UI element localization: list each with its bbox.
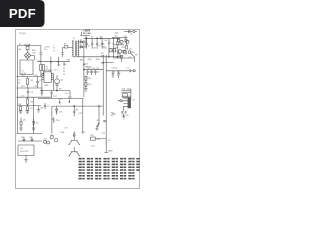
dashed sense line [63, 62, 65, 75]
transistor Q6 [120, 40, 123, 43]
junction dot [103, 62, 104, 63]
wire: vertical rail x33.6 [33, 97, 35, 133]
svg-text:10K: 10K [96, 139, 100, 141]
wire: mid-left bus y105.6 [18, 105, 42, 107]
svg-text:GND: GND [44, 85, 49, 87]
svg-text:C16 22: C16 22 [111, 67, 117, 69]
svg-text:D1: D1 [80, 39, 82, 41]
resistor RD1 [40, 65, 42, 71]
opto feedback vertical x84 [83, 40, 85, 97]
svg-text:CY1: CY1 [34, 86, 38, 88]
capacitor C23 between rails [103, 121, 106, 122]
svg-text:CX1: CX1 [21, 75, 25, 77]
svg-text:RV1: RV1 [21, 86, 25, 88]
junction dots y90.5 [41, 90, 42, 91]
ground under Q11 [95, 128, 98, 130]
wire: SMPS bottom returns [109, 45, 120, 57]
wire: output stage bottom y58 [114, 50, 135, 62]
junction dot center bus [74, 106, 75, 107]
capacitor C18 [117, 71, 119, 78]
svg-text:OUT: OUT [114, 33, 119, 35]
resistor box R8 [109, 49, 112, 52]
crystal Y1 [108, 38, 110, 47]
svg-text:R6: R6 [105, 40, 107, 42]
capacitor CF1 on riser x40.9 [39, 46, 42, 65]
junction dots on HV bus [86, 38, 87, 39]
U1 left pins [42, 73, 44, 90]
fuse F1 [26, 46, 29, 53]
LED LD4 [55, 139, 58, 142]
svg-text:DC 0.8A: DC 0.8A [83, 32, 91, 35]
resistor R10 [123, 50, 125, 52]
svg-text:C23: C23 [101, 133, 104, 135]
resistor R2 [27, 76, 29, 88]
wire: secondary rail y69.7 [84, 69, 103, 71]
wire: long rail x106.2 [105, 55, 107, 153]
svg-text:D9: D9 [115, 36, 117, 38]
capacitor C6 [61, 53, 63, 57]
wire: right drop x82.8 [82, 99, 84, 134]
CN1 pins [122, 98, 128, 106]
svg-text:C18: C18 [117, 72, 120, 74]
svg-text:C15: C15 [96, 71, 99, 73]
svg-text:U1 3842: U1 3842 [44, 70, 53, 72]
wire: center bus y106.1 [52, 105, 103, 107]
svg-text:C8: C8 [93, 48, 95, 50]
resistor R16 [129, 51, 131, 54]
capacitor C7 [85, 38, 87, 49]
resistor R15 [126, 45, 128, 49]
PDF badge [0, 0, 45, 27]
svg-text:PRI: PRI [67, 59, 71, 61]
capacitor C9 [96, 38, 98, 49]
transistor Q9 [68, 138, 80, 144]
resistor R17 [91, 137, 107, 140]
LED LD1 [43, 140, 46, 143]
svg-text:C13: C13 [88, 71, 91, 73]
svg-text:C9: C9 [98, 46, 100, 48]
U1 right pins [51, 73, 53, 90]
CN1 pin2 terminal circle [120, 100, 122, 102]
capacitor C17 [112, 71, 114, 78]
wire: rail B y88 [16, 87, 42, 89]
svg-text:C14: C14 [92, 71, 95, 73]
capacitor C5 polarized [44, 103, 46, 109]
svg-text:C19 C20: C19 C20 [121, 115, 128, 117]
svg-text:GND: GND [108, 150, 113, 152]
capacitor C14 [90, 70, 92, 75]
svg-text:C14: C14 [91, 68, 94, 70]
diode D5 with ground [19, 118, 23, 131]
wire: AC top feeder y45.5 [18, 45, 41, 47]
wire: risers to rail A [41, 71, 44, 77]
wire: mains run to SMPS [63, 48, 73, 53]
transistor Q3 [23, 137, 26, 142]
zener D9 [52, 117, 54, 123]
wire: rail C y97 [16, 96, 52, 98]
svg-text:Q11: Q11 [96, 120, 99, 122]
test point arrow TP1 [59, 100, 60, 103]
diode D1 [78, 41, 86, 43]
capacitor C12 [50, 91, 52, 98]
svg-text:C12: C12 [65, 93, 68, 95]
resistor R5 with ground [37, 106, 40, 113]
transistor Q11 [96, 123, 100, 127]
svg-text:104: 104 [32, 52, 35, 54]
capacitor C4 with ground [26, 106, 30, 114]
diode D2 [78, 42, 86, 48]
capacitor C19 [121, 111, 123, 114]
transformer T1 winding ticks [72, 42, 79, 55]
wire: rail D y133.5 [16, 133, 42, 135]
wire: bus y98.6 [38, 91, 84, 99]
diode D10 [73, 131, 75, 138]
wire: speaker line B y70.8 [106, 70, 128, 72]
wire: lower rail y141 [18, 140, 42, 142]
svg-text:EI-33: EI-33 [21, 73, 26, 75]
wire: drop x99 from center bus [98, 106, 100, 123]
wire: AC mains left rail [17, 46, 19, 134]
wire: CN1 ground drop [123, 106, 125, 111]
svg-text:J1: J1 [130, 33, 132, 35]
wire: HV top bus y38.3 [84, 37, 120, 39]
svg-text:D7: D7 [129, 57, 131, 59]
wire: left drop x51.9 [51, 106, 53, 133]
capacitor C10 [101, 38, 103, 49]
resistor R4 with ground [19, 106, 23, 114]
svg-text:CY2: CY2 [21, 95, 25, 97]
junction dot x99 [98, 106, 99, 107]
transistor Q1 [55, 79, 60, 84]
capacitor C2 [36, 76, 39, 88]
svg-text:F1 2A: F1 2A [25, 44, 31, 47]
svg-text:C7: C7 [88, 46, 90, 48]
diode D6 with ground [32, 119, 36, 130]
wire: controller ground bus y90.5 [40, 90, 70, 92]
svg-text:Q8: Q8 [135, 54, 138, 56]
ground under R12 [84, 89, 87, 91]
ground below K1 [24, 155, 28, 162]
diode D7 diagonal [131, 53, 135, 57]
capacitor C11 [41, 91, 43, 97]
capacitor C8 [91, 38, 93, 49]
wire: output stage mid links [114, 42, 127, 46]
fuse F2 [64, 46, 68, 48]
transistor Q4 [31, 137, 34, 142]
wire: bottom bus y56.8 [73, 56, 122, 58]
svg-text:D2: D2 [80, 44, 82, 46]
relay contact block [122, 89, 131, 99]
resistor R12 [85, 82, 87, 88]
relay K1 box [18, 145, 34, 155]
wire: link y62.6 [103, 38, 113, 63]
wire: secondary to controller drops [38, 57, 70, 72]
wire: CN1 pin2 feed [118, 100, 120, 102]
svg-text:470u: 470u [87, 59, 91, 61]
capacitor C13 [86, 70, 88, 75]
terminal J2 [133, 70, 135, 72]
svg-text:470u: 470u [96, 59, 100, 61]
bridge rectifier BR1 [24, 52, 30, 58]
snubber box [120, 56, 122, 62]
svg-text:R9: R9 [59, 89, 61, 91]
resistor R14 [125, 38, 127, 42]
LED LD3 [50, 136, 53, 139]
resistor R13 [117, 38, 119, 42]
svg-text:R19: R19 [101, 62, 104, 64]
wire: rail x106 end stub [105, 152, 108, 154]
capacitor C20 [125, 112, 127, 114]
resistor R11 [85, 76, 87, 82]
ground under CN1 [122, 114, 125, 120]
parts table [79, 158, 82, 160]
terminal J1 [133, 30, 135, 32]
svg-text:CX2: CX2 [34, 75, 38, 77]
wire: long rail x103.2 [102, 55, 104, 116]
svg-text:R5: R5 [100, 36, 102, 38]
wire: rail A y76 [16, 75, 42, 77]
wire: drop x95 to table [105, 139, 107, 145]
svg-text:R15: R15 [122, 47, 125, 49]
wire: +300V node riser [80, 32, 90, 42]
resistor R3 [27, 97, 29, 105]
transistor Q1 leads [56, 75, 59, 91]
resistor RD2 [42, 65, 44, 71]
capacitor C15 [94, 70, 96, 75]
diode D8 [56, 106, 58, 115]
svg-text:SEC: SEC [80, 59, 85, 61]
resistor R7 [117, 38, 119, 45]
capacitor C3 [27, 88, 29, 97]
svg-text:D3: D3 [54, 70, 56, 72]
transistor Q5 [118, 50, 121, 53]
transformer T1 box [20, 60, 33, 75]
connector CN1 header [128, 97, 131, 108]
junction dots bottom bus [108, 56, 109, 57]
svg-text:RLY12V: RLY12V [21, 151, 29, 153]
LED LD2 [47, 141, 50, 144]
transistor Q7 [126, 40, 129, 43]
capacitor C16 on line B [129, 69, 133, 72]
test point arrow TP2 [69, 99, 70, 102]
wire: bridge output right [28, 56, 35, 61]
transistor Q8 [124, 51, 127, 54]
svg-text:C17: C17 [112, 72, 115, 74]
svg-text:4K7: 4K7 [111, 115, 114, 117]
svg-text:2W: 2W [102, 46, 105, 48]
wire: speaker line A y31.5 [124, 31, 133, 33]
controller IC U1 [44, 72, 51, 83]
terminal J1 tail [129, 30, 138, 33]
transistor Q10 [68, 147, 80, 156]
transformer T1 [73, 40, 78, 57]
svg-text:C15: C15 [96, 68, 99, 70]
svg-text:SB560: SB560 [85, 66, 92, 68]
junction dots on y61.7 [50, 61, 51, 62]
capacitor C21 polarized [73, 106, 78, 116]
svg-text:Page: Page [19, 31, 26, 35]
junction dots x83.9 [83, 64, 84, 65]
resistor box R9 [113, 49, 116, 52]
document page [16, 30, 140, 189]
wire: output stage top rail y37.6 [112, 37, 128, 39]
svg-text:PDF: PDF [9, 6, 36, 21]
